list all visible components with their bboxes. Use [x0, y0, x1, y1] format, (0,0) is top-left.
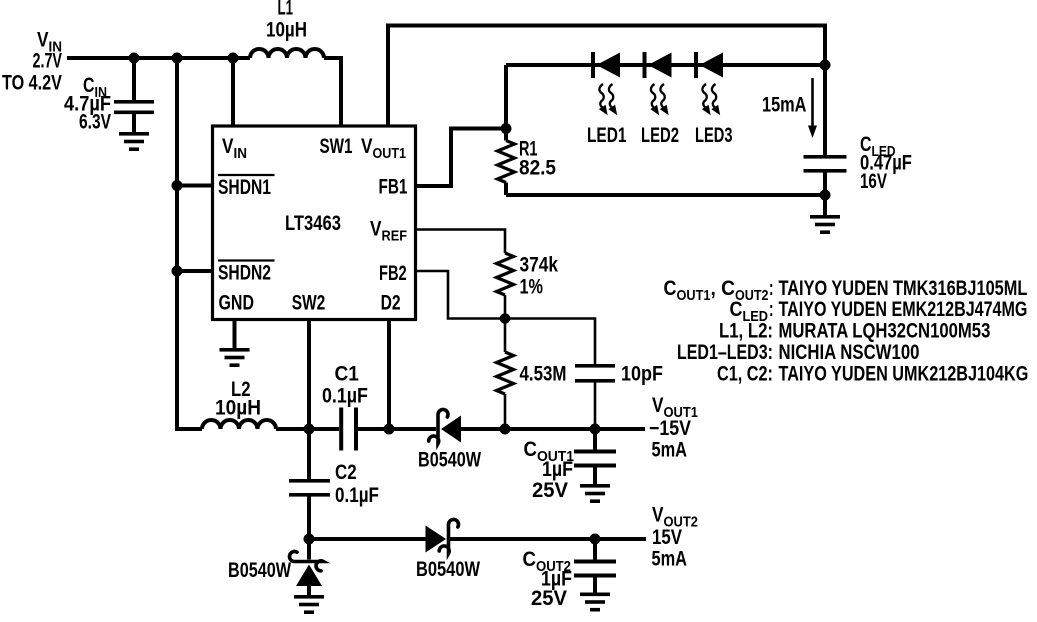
wire: FB1 route — [416, 129, 507, 187]
node VOUT2 output label — [652, 504, 699, 570]
ground: COUT1 — [580, 484, 610, 503]
node VOUT1 output label — [649, 395, 698, 461]
svg-text:2.7V: 2.7V — [33, 49, 62, 72]
ground: CIN — [119, 132, 149, 151]
wire: GND pin stub — [233, 320, 237, 349]
BOM note line 4 — [677, 340, 919, 365]
svg-text:5mA: 5mA — [652, 547, 688, 570]
wire: D2 pin stub — [387, 320, 391, 430]
node VIN input label — [2, 29, 62, 94]
junction: 10pF bottom / COUT1 — [590, 424, 601, 435]
wire: L1 to SW1 pin — [324, 58, 341, 126]
wire: VREF net — [416, 230, 506, 254]
svg-text:SHDN2: SHDN2 — [218, 260, 271, 284]
svg-text:C: C — [664, 277, 677, 301]
ground: COUT2 — [580, 593, 610, 612]
pin SHDN2 label — [218, 260, 275, 284]
junction: FB2 / 374k / 4.53M / 10pF node — [500, 313, 511, 324]
pin SHDN1 label — [218, 175, 275, 199]
capacitor 10pF — [575, 362, 663, 429]
junction: SHDN1 tap — [172, 180, 183, 191]
svg-text:C1: C1 — [335, 363, 359, 386]
svg-text:LED2: LED2 — [641, 124, 679, 147]
arrow: 15mA LED current — [762, 78, 817, 138]
LED LED3 — [694, 52, 724, 117]
capacitor C2 0.1uF — [289, 429, 379, 539]
svg-text:10µH: 10µH — [266, 19, 307, 42]
wire: node to 10pF — [505, 319, 595, 365]
junction: SW2 / C2 / rail — [304, 424, 315, 435]
svg-text:82.5: 82.5 — [519, 157, 556, 180]
pin VIN label — [222, 136, 247, 163]
svg-text:C: C — [730, 298, 743, 322]
svg-text:SW1: SW1 — [320, 134, 353, 158]
svg-text:C: C — [524, 438, 537, 461]
svg-text:OUT1: OUT1 — [373, 144, 407, 161]
junction: D2 / C1 / diode — [384, 424, 395, 435]
resistor 374k 1% — [497, 253, 559, 319]
diode D4 B0540W right-pointing schottky — [416, 519, 480, 580]
junction: C2 / up-diode / VOUT2 rail — [304, 534, 315, 545]
wire: VOUT1 riser and top rail to CLED — [388, 26, 825, 156]
svg-text:TAIYO YUDEN EMK212BJ474MG: TAIYO YUDEN EMK212BJ474MG — [779, 297, 1028, 321]
svg-text:C: C — [523, 548, 536, 571]
svg-text:0.1µF: 0.1µF — [322, 384, 368, 408]
junction: VIN rail / VIN pin — [228, 53, 239, 64]
junction: CLED bottom / LED loop return — [820, 190, 831, 201]
svg-text:LED3: LED3 — [695, 123, 732, 146]
wire: VOUT2 rail left — [309, 537, 426, 541]
resistor 4.53M — [497, 319, 567, 430]
svg-text:B0540W: B0540W — [418, 447, 481, 471]
pin VOUT1 label — [361, 136, 406, 162]
ground: IC GND — [220, 348, 250, 367]
wire: FB2 net — [416, 271, 506, 319]
IC U1 LT3463 body — [213, 126, 416, 320]
pin VREF label — [370, 218, 407, 244]
svg-text:B0540W: B0540W — [416, 557, 480, 580]
resistor R1 82.5 — [498, 129, 556, 196]
svg-text:6.3V: 6.3V — [79, 109, 112, 133]
svg-text:IN: IN — [234, 145, 247, 162]
svg-text:L1: L1 — [278, 0, 294, 19]
wire: LED loop bottom rail — [506, 193, 825, 197]
svg-text:REF: REF — [382, 226, 407, 243]
wire: SW2 pin stub — [307, 320, 311, 430]
svg-text:1%: 1% — [520, 274, 544, 297]
svg-text:C2: C2 — [335, 461, 357, 484]
inductor L1 10uH — [250, 0, 324, 58]
svg-text:SW2: SW2 — [292, 290, 325, 314]
svg-text:25V: 25V — [531, 587, 567, 610]
svg-text:4.53M: 4.53M — [520, 363, 567, 386]
svg-text:B0540W: B0540W — [228, 558, 291, 582]
diode D1 B0540W left-pointing schottky — [418, 409, 481, 470]
svg-text:LT3463: LT3463 — [285, 212, 341, 235]
svg-text:OUT1: OUT1 — [677, 286, 711, 303]
junction: SHDN2 tap — [172, 266, 183, 277]
svg-text::: : — [769, 297, 773, 321]
BOM note line 1 — [664, 276, 1028, 303]
junction: VIN rail / CIN — [129, 53, 140, 64]
capacitor CIN 4.7uF 6.3V — [64, 58, 154, 133]
ground: CLED — [810, 215, 840, 234]
wire: SHDN2 stub — [177, 269, 212, 273]
wire: diode to VOUT2 output — [449, 537, 647, 541]
svg-text:TAIYO YUDEN TMK316BJ105ML: TAIYO YUDEN TMK316BJ105ML — [779, 276, 1028, 299]
svg-text:16V: 16V — [860, 169, 888, 193]
wire: C1 to D2 junction — [358, 427, 436, 431]
junction: 4.53M bottom — [500, 424, 511, 435]
junction: LED string right end — [820, 60, 831, 71]
junction: COUT2 tap — [590, 534, 601, 545]
svg-text:FB2: FB2 — [379, 261, 407, 284]
svg-text:, C: , C — [711, 277, 735, 300]
LED LED2 — [643, 52, 673, 117]
svg-text:10µH: 10µH — [215, 397, 261, 420]
capacitor C1 0.1uF — [322, 363, 368, 451]
diode D3 B0540W up-pointing schottky — [228, 539, 324, 595]
wire: diode to VOUT1 output — [461, 427, 645, 431]
svg-text:LED1–LED3:: LED1–LED3: — [677, 340, 773, 364]
svg-text:V: V — [222, 136, 234, 159]
svg-text:0.1µF: 0.1µF — [335, 484, 379, 507]
wire: VIN pin stub — [231, 58, 235, 126]
svg-text:D2: D2 — [381, 290, 401, 314]
svg-text:V: V — [652, 395, 664, 418]
capacitor COUT1 1uF 25V — [524, 429, 617, 502]
LED LED1 — [591, 52, 621, 117]
svg-text:TAIYO YUDEN UMK212BJ104KG: TAIYO YUDEN UMK212BJ104KG — [779, 361, 1029, 385]
ground: up-diode — [294, 595, 324, 614]
svg-text:5mA: 5mA — [652, 438, 688, 461]
wire: LED rail left drop — [504, 65, 508, 129]
BOM note line 3 — [719, 320, 990, 343]
capacitor COUT2 1uF 25V — [523, 539, 617, 610]
svg-text:V: V — [652, 504, 664, 527]
svg-text:25V: 25V — [532, 479, 568, 502]
svg-text:GND: GND — [219, 290, 254, 314]
junction: FB1 / R1 top — [501, 123, 512, 134]
svg-text:FB1: FB1 — [379, 174, 408, 198]
BOM note line 5 — [717, 361, 1028, 385]
svg-text:10pF: 10pF — [621, 362, 663, 386]
svg-text:MURATA LQH32CN100M53: MURATA LQH32CN100M53 — [779, 320, 991, 343]
inductor L2 10uH — [202, 378, 276, 429]
svg-text:15mA: 15mA — [762, 93, 807, 116]
svg-text:TO 4.2V: TO 4.2V — [2, 70, 62, 94]
wire: L2 to C1 — [276, 427, 339, 431]
junction: VIN rail / shutdown rail — [172, 53, 183, 64]
wire: SHDN1 stub — [177, 184, 212, 188]
BOM note line 2 — [730, 297, 1028, 324]
svg-text:V: V — [370, 218, 382, 241]
wire: shutdown rail left vertical — [177, 58, 202, 429]
svg-text:LED1: LED1 — [587, 123, 626, 147]
svg-text:C1, C2:: C1, C2: — [717, 361, 773, 384]
wire: LED top rail — [506, 63, 825, 67]
wire: VIN input rail — [67, 56, 250, 60]
svg-text:SHDN1: SHDN1 — [218, 175, 271, 199]
capacitor CLED 0.47uF 16V — [804, 132, 912, 215]
svg-text:V: V — [361, 136, 373, 159]
